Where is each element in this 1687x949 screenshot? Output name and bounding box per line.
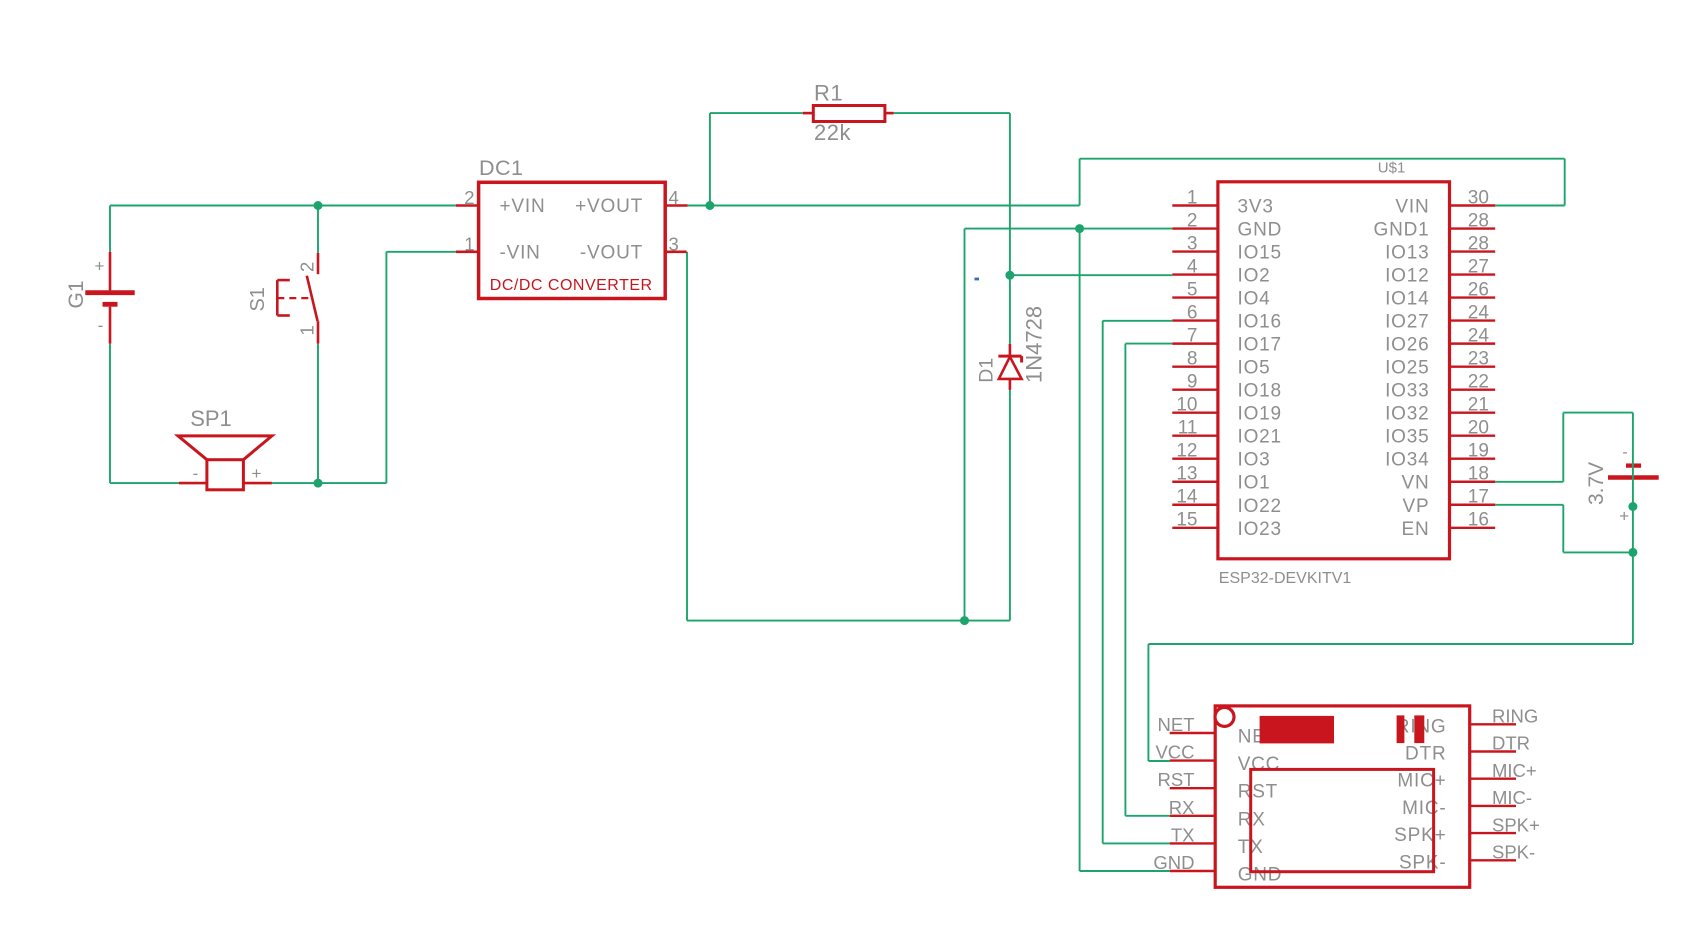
svg-text:IO23: IO23 bbox=[1238, 519, 1282, 540]
svg-text:1: 1 bbox=[1187, 187, 1198, 208]
svg-text:1N4728: 1N4728 bbox=[1022, 306, 1047, 383]
svg-text:10: 10 bbox=[1176, 394, 1197, 415]
svg-text:14: 14 bbox=[1176, 487, 1198, 508]
svg-text:-: - bbox=[98, 316, 104, 335]
svg-text:IO1: IO1 bbox=[1238, 473, 1271, 494]
svg-text:2: 2 bbox=[464, 187, 474, 208]
svg-text:IO4: IO4 bbox=[1238, 289, 1271, 310]
svg-text:S1: S1 bbox=[247, 287, 269, 311]
svg-text:GND1: GND1 bbox=[1374, 220, 1430, 241]
svg-text:MIC-: MIC- bbox=[1402, 798, 1446, 819]
svg-text:DTR: DTR bbox=[1405, 744, 1446, 765]
svg-text:28: 28 bbox=[1468, 233, 1489, 254]
svg-text:23: 23 bbox=[1468, 348, 1489, 369]
svg-text:7: 7 bbox=[1187, 325, 1198, 346]
svg-text:26: 26 bbox=[1468, 279, 1489, 300]
svg-text:TX: TX bbox=[1171, 824, 1195, 845]
svg-text:-: - bbox=[1622, 444, 1627, 461]
svg-text:27: 27 bbox=[1468, 256, 1489, 277]
svg-text:3.7V: 3.7V bbox=[1585, 462, 1608, 505]
svg-text:IO3: IO3 bbox=[1238, 450, 1271, 471]
svg-text:VCC: VCC bbox=[1238, 754, 1281, 775]
svg-text:3: 3 bbox=[1187, 233, 1198, 254]
svg-text:DC/DC CONVERTER: DC/DC CONVERTER bbox=[490, 277, 653, 294]
svg-text:20: 20 bbox=[1468, 418, 1489, 439]
svg-text:15: 15 bbox=[1176, 510, 1197, 531]
svg-text:G1: G1 bbox=[65, 280, 88, 308]
svg-text:2: 2 bbox=[1187, 210, 1198, 231]
svg-text:IO2: IO2 bbox=[1238, 266, 1271, 287]
svg-text:IO26: IO26 bbox=[1385, 335, 1429, 356]
svg-text:+VOUT: +VOUT bbox=[575, 196, 643, 217]
svg-text:24: 24 bbox=[1468, 325, 1490, 346]
svg-text:+: + bbox=[252, 464, 262, 483]
svg-text:DC1: DC1 bbox=[479, 156, 524, 180]
svg-text:6: 6 bbox=[1187, 302, 1198, 323]
svg-text:22: 22 bbox=[1468, 371, 1489, 392]
svg-text:-VIN: -VIN bbox=[500, 242, 541, 263]
svg-text:+: + bbox=[95, 257, 105, 276]
svg-text:SPK-: SPK- bbox=[1492, 842, 1535, 863]
svg-text:R1: R1 bbox=[814, 81, 843, 106]
svg-text:IO22: IO22 bbox=[1238, 496, 1282, 517]
svg-text:16: 16 bbox=[1468, 510, 1489, 531]
svg-text:22k: 22k bbox=[814, 120, 851, 145]
svg-text:28: 28 bbox=[1468, 210, 1489, 231]
svg-text:EN: EN bbox=[1402, 519, 1430, 540]
svg-text:U$1: U$1 bbox=[1378, 160, 1406, 177]
svg-text:GND: GND bbox=[1153, 852, 1194, 873]
svg-text:DTR: DTR bbox=[1492, 733, 1530, 754]
svg-text:VN: VN bbox=[1402, 473, 1430, 494]
svg-text:VIN: VIN bbox=[1395, 197, 1429, 218]
svg-text:RX: RX bbox=[1169, 797, 1195, 818]
svg-text:IO34: IO34 bbox=[1385, 450, 1429, 471]
svg-text:IO33: IO33 bbox=[1385, 381, 1429, 402]
svg-text:MIC+: MIC+ bbox=[1397, 771, 1446, 792]
svg-text:21: 21 bbox=[1468, 394, 1489, 415]
svg-text:1: 1 bbox=[464, 233, 474, 254]
svg-text:4: 4 bbox=[669, 187, 679, 208]
svg-text:IO17: IO17 bbox=[1238, 335, 1282, 356]
svg-text:30: 30 bbox=[1468, 187, 1489, 208]
svg-text:MIC+: MIC+ bbox=[1492, 760, 1537, 781]
svg-text:ESP32-DEVKITV1: ESP32-DEVKITV1 bbox=[1219, 570, 1352, 587]
svg-text:11: 11 bbox=[1178, 418, 1198, 439]
svg-text:+: + bbox=[1619, 507, 1629, 526]
svg-text:17: 17 bbox=[1468, 487, 1489, 508]
svg-text:IO14: IO14 bbox=[1385, 289, 1429, 310]
svg-text:18: 18 bbox=[1468, 464, 1489, 485]
svg-text:SPK+: SPK+ bbox=[1492, 814, 1540, 835]
svg-text:RING: RING bbox=[1492, 706, 1538, 727]
svg-text:IO12: IO12 bbox=[1385, 266, 1429, 287]
svg-text:12: 12 bbox=[1176, 441, 1197, 462]
svg-text:RST: RST bbox=[1238, 782, 1278, 803]
svg-text:IO16: IO16 bbox=[1238, 312, 1282, 333]
svg-text:MIC-: MIC- bbox=[1492, 787, 1532, 808]
svg-text:3: 3 bbox=[669, 233, 679, 254]
svg-text:IO19: IO19 bbox=[1238, 404, 1282, 425]
svg-text:D1: D1 bbox=[976, 358, 998, 383]
svg-text:19: 19 bbox=[1468, 441, 1489, 462]
svg-text:IO27: IO27 bbox=[1385, 312, 1429, 333]
svg-text:24: 24 bbox=[1468, 302, 1490, 323]
svg-text:IO13: IO13 bbox=[1385, 243, 1429, 264]
svg-text:SP1: SP1 bbox=[190, 406, 232, 431]
svg-text:3V3: 3V3 bbox=[1238, 197, 1274, 218]
svg-text:-: - bbox=[193, 464, 199, 483]
svg-text:VCC: VCC bbox=[1155, 742, 1194, 763]
svg-text:SPK-: SPK- bbox=[1399, 852, 1447, 873]
svg-text:SPK+: SPK+ bbox=[1394, 825, 1446, 846]
svg-text:IO25: IO25 bbox=[1385, 358, 1429, 379]
svg-text:IO18: IO18 bbox=[1238, 381, 1282, 402]
svg-text:IO5: IO5 bbox=[1238, 358, 1271, 379]
svg-text:IO21: IO21 bbox=[1238, 427, 1282, 448]
svg-text:IO35: IO35 bbox=[1385, 427, 1429, 448]
svg-text:-VOUT: -VOUT bbox=[580, 242, 643, 263]
svg-text:GND: GND bbox=[1238, 865, 1283, 886]
svg-text:1: 1 bbox=[297, 325, 318, 335]
svg-text:VP: VP bbox=[1403, 496, 1430, 517]
svg-text:+VIN: +VIN bbox=[500, 196, 546, 217]
svg-text:4: 4 bbox=[1187, 256, 1198, 277]
svg-text:NET: NET bbox=[1158, 714, 1195, 735]
svg-text:8: 8 bbox=[1187, 348, 1198, 369]
svg-text:5: 5 bbox=[1187, 279, 1198, 300]
svg-text:2: 2 bbox=[297, 262, 318, 272]
svg-text:IO15: IO15 bbox=[1238, 243, 1282, 264]
svg-text:IO32: IO32 bbox=[1385, 404, 1429, 425]
svg-text:9: 9 bbox=[1187, 371, 1198, 392]
svg-text:13: 13 bbox=[1176, 464, 1197, 485]
svg-text:RST: RST bbox=[1158, 769, 1195, 790]
svg-text:GND: GND bbox=[1238, 220, 1283, 241]
